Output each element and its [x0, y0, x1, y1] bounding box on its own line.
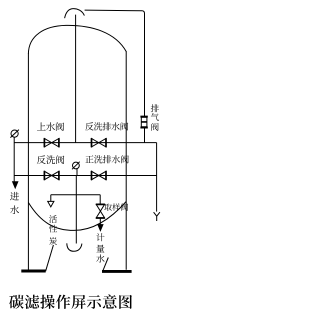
tank bottom drain cup	[67, 243, 82, 251]
wire line3 sample pipe	[51, 194, 100, 196]
tank left foot	[21, 270, 45, 273]
tank dome	[28, 25, 126, 54]
tank right wall	[125, 51, 127, 270]
node funnel stub with open triangle	[48, 195, 54, 207]
pipe B center downcomer	[75, 176, 77, 244]
tank left leg diagonal	[46, 245, 54, 271]
valve V6 exhaust valve vertical bowtie	[141, 117, 146, 127]
caption 碳滤操作屏示意图	[9, 295, 24, 309]
valve V1 上水阀 bowtie	[44, 139, 59, 147]
label 上水阀 valve V1	[37, 122, 46, 130]
valve V2 反洗排水阀 bowtie	[92, 139, 107, 147]
pipe A center riser top	[75, 15, 77, 143]
node inlet arrow 进水	[13, 182, 18, 188]
label 计量水 sample outlet	[96, 233, 104, 241]
label 取样阀 valve V5	[104, 204, 112, 211]
vent gooseneck arc at tank top	[65, 9, 85, 19]
tank dished bottom	[28, 202, 126, 231]
label 反洗排水阀 valve V2	[85, 122, 93, 130]
gauge PG2 pressure gauge on line2	[73, 162, 80, 169]
label 正洗排水阀 valve V4	[85, 155, 93, 163]
wire line2 lower header pipe	[14, 175, 156, 177]
label 活性炭 inside tank	[49, 215, 57, 223]
tank left wall	[27, 54, 29, 270]
valve V3 反洗阀 bowtie	[44, 171, 59, 179]
valve V4 正洗排水阀 bowtie	[92, 171, 107, 179]
wire exhaust pipe below valve	[144, 128, 146, 143]
tank right foot	[102, 270, 132, 273]
wire left inlet header vertical	[13, 137, 15, 182]
tank right leg diagonal	[103, 258, 109, 272]
valve V5 取样阀 vertical bowtie	[96, 204, 104, 218]
node drain arrow open Y	[154, 212, 160, 221]
gauge PG1 pressure gauge left	[11, 130, 18, 137]
label 进水 inlet	[10, 192, 19, 201]
label 反洗阀 valve V3	[37, 155, 46, 164]
wire right drain connector	[156, 143, 158, 212]
label 排气阀 valve V6 rotated	[151, 104, 159, 112]
node sample arrow	[98, 225, 103, 231]
wire line1 upper header pipe	[14, 142, 156, 144]
wire sample outlet stub	[99, 218, 101, 225]
wire top exhaust pipe horizontal	[85, 10, 145, 116]
wire sample drop pipe	[99, 195, 101, 205]
